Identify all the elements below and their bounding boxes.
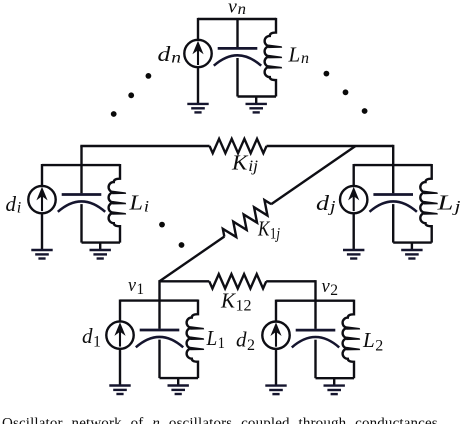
svg-text:vn: vn bbox=[228, 0, 246, 18]
svg-text:L2: L2 bbox=[362, 328, 383, 354]
oscillator j: current source dj, capacitor, inductor Lj, grounds bbox=[340, 164, 438, 259]
wire K1j lower diagonal bbox=[160, 237, 225, 282]
svg-text:dn: dn bbox=[158, 42, 182, 67]
wire K1j upper diagonal bbox=[271, 146, 355, 204]
svg-text:Ln: Ln bbox=[287, 42, 309, 67]
wire node i riser bbox=[80, 146, 82, 165]
wire node j riser bbox=[392, 145, 394, 165]
svg-text:dj: dj bbox=[316, 191, 336, 216]
oscillator 2: current source d2, capacitor, inductor L2, grounds bbox=[262, 300, 360, 395]
wire node v1 riser bbox=[158, 280, 160, 300]
oscillator n: current source dn, capacitor, inductor Ln, grounds bbox=[184, 18, 282, 113]
resistor K1j (coupling, diagonal) bbox=[220, 198, 275, 242]
svg-text:Oscillator network of n oscill: Oscillator network of n oscillators coup… bbox=[2, 416, 438, 424]
oscillator 1: current source d1, capacitor, inductor L1, grounds bbox=[106, 300, 204, 395]
svg-text:L1: L1 bbox=[206, 326, 225, 352]
svg-text:Li: Li bbox=[128, 191, 149, 216]
resistor Kij (coupling) bbox=[210, 139, 267, 153]
ellipsis dots between oscillator i and K1j bbox=[159, 222, 184, 248]
wire node v2 riser bbox=[314, 280, 316, 301]
wire K12 left bbox=[160, 280, 210, 282]
svg-text:v1: v1 bbox=[128, 275, 144, 298]
wire Kij left bbox=[80, 145, 209, 147]
svg-text:di: di bbox=[6, 192, 22, 217]
ellipsis dots between oscillator n and oscillator j bbox=[324, 71, 368, 114]
wire K12 right bbox=[266, 280, 315, 282]
svg-text:d2: d2 bbox=[236, 328, 255, 354]
wire Kij right bbox=[267, 145, 394, 147]
svg-text:K1j: K1j bbox=[257, 217, 280, 243]
svg-text:v2: v2 bbox=[322, 276, 339, 299]
oscillator i: current source di, capacitor, inductor Li, grounds bbox=[28, 164, 126, 259]
svg-text:K12: K12 bbox=[220, 288, 252, 314]
svg-text:d1: d1 bbox=[82, 324, 101, 350]
resistor K12 (coupling) bbox=[209, 274, 266, 288]
svg-text:Lj: Lj bbox=[436, 191, 461, 216]
ellipsis dots between oscillator n and oscillator i bbox=[111, 73, 152, 117]
svg-text:Kij: Kij bbox=[231, 150, 259, 175]
